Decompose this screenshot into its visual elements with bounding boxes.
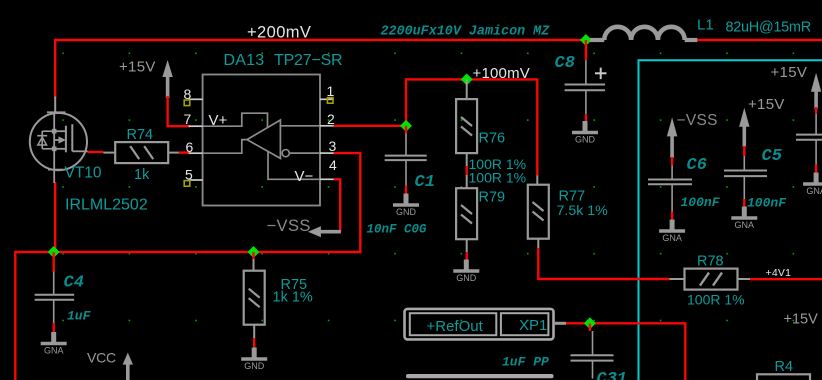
node +4V1 label — [766, 267, 792, 279]
capacitor C1 — [385, 126, 427, 194]
label 100R 1% (R78) — [687, 292, 745, 308]
no-connect pin 8 — [184, 100, 190, 106]
svg-text:+15V: +15V — [748, 96, 785, 113]
label 1k 1% (R75) — [273, 290, 313, 306]
label 100R 1% (R79) — [469, 170, 527, 186]
svg-text:R4: R4 — [775, 359, 794, 375]
svg-text:−VSS: −VSS — [677, 112, 718, 129]
label V+ — [209, 112, 228, 129]
svg-text:4: 4 — [329, 157, 337, 173]
svg-text:1k: 1k — [134, 167, 150, 183]
wire: pin3 down to bottom rail — [334, 153, 361, 253]
svg-text:100nF: 100nF — [681, 195, 721, 210]
svg-text:GNA: GNA — [806, 186, 822, 196]
resistor R74 — [103, 142, 179, 163]
label C8 — [555, 54, 575, 73]
capacitor (right edge) — [796, 107, 822, 173]
svg-text:10nF C0G: 10nF C0G — [367, 223, 428, 237]
ground GNA (right cap) — [803, 173, 822, 197]
svg-text:GNA: GNA — [44, 346, 64, 356]
svg-text:R74: R74 — [127, 127, 154, 143]
label 10nF C0G — [367, 223, 428, 237]
label L1 — [697, 17, 714, 34]
svg-text:+15V: +15V — [771, 64, 808, 81]
junction top rail — [580, 34, 592, 46]
label DA13 — [224, 52, 265, 69]
label 100nF (C6) — [681, 195, 721, 210]
resistor R78 — [670, 269, 751, 290]
wire: XP1 stub — [554, 322, 567, 325]
wire: gate to R74 — [88, 151, 104, 153]
svg-text:DA13: DA13 — [224, 52, 265, 69]
label R79 — [479, 190, 506, 206]
junction XP1 net — [584, 317, 596, 329]
junction bottom-R75 — [248, 246, 260, 258]
svg-text:100R 1%: 100R 1% — [687, 292, 745, 308]
pin 7 — [184, 111, 192, 127]
label 7.5k 1% (R77) — [557, 203, 609, 219]
label 2200uFx10V Jamicon MZ — [381, 25, 551, 40]
svg-text:+15V: +15V — [119, 59, 156, 76]
label R75 — [281, 277, 308, 293]
node +200mV label — [247, 24, 311, 42]
svg-text:R78: R78 — [697, 253, 724, 269]
svg-text:+RefOut: +RefOut — [427, 318, 484, 335]
label R76 — [479, 130, 506, 146]
ground GND (R75) — [241, 348, 267, 372]
svg-text:GND: GND — [396, 207, 417, 217]
label R74 — [127, 127, 154, 143]
svg-text:+200mV: +200mV — [247, 24, 311, 42]
wire: +15V to pin7 — [168, 96, 190, 126]
ground GNA (C5) — [731, 207, 757, 231]
label 82uH@15mR (L1) — [726, 20, 811, 36]
svg-text:IRLML2502: IRLML2502 — [65, 197, 148, 214]
label 1uF (C4) — [67, 308, 92, 323]
label C1 — [415, 173, 435, 192]
svg-text:C8: C8 — [555, 54, 575, 73]
svg-text:R79: R79 — [479, 190, 506, 206]
svg-text:+4V1: +4V1 — [766, 267, 792, 279]
power +15V (right cap) — [771, 64, 822, 109]
pin 5 — [185, 166, 193, 182]
svg-text:100nF: 100nF — [747, 196, 787, 211]
svg-text:GNA: GNA — [735, 220, 755, 230]
svg-text:1uF: 1uF — [67, 308, 92, 323]
pin 2 — [327, 111, 335, 127]
pin 6 — [186, 139, 194, 155]
junction C1 node — [400, 120, 412, 132]
wire: XP1 to right drop — [566, 323, 685, 380]
label +RefOut — [427, 318, 484, 335]
svg-text:+100mV: +100mV — [473, 65, 531, 82]
power +15V (op-amp supply) — [119, 59, 173, 99]
svg-text:V+: V+ — [209, 112, 228, 129]
svg-text:R76: R76 — [479, 130, 506, 146]
node +100mV label — [473, 65, 531, 82]
no-connect pin 1 — [327, 98, 333, 104]
power VCC — [87, 349, 133, 380]
svg-text:2200uFx10V Jamicon MZ: 2200uFx10V Jamicon MZ — [381, 25, 551, 40]
label TP27-SR — [274, 52, 342, 69]
svg-text:100R 1%: 100R 1% — [469, 170, 527, 186]
label IRLML2502 — [65, 197, 148, 214]
svg-text:GND: GND — [575, 135, 596, 145]
svg-text:7: 7 — [184, 111, 192, 127]
label C6 — [687, 156, 707, 175]
capacitor C8 — [565, 40, 607, 121]
svg-text:3: 3 — [329, 138, 337, 154]
svg-text:V−: V− — [295, 168, 314, 185]
label VT10 — [65, 165, 102, 182]
svg-text:+15V: +15V — [784, 311, 819, 327]
resistor R79 — [456, 188, 477, 259]
svg-text:82uH@15mR: 82uH@15mR — [726, 20, 811, 36]
capacitor C6 — [648, 157, 692, 220]
connector (bottom, clipped) — [406, 374, 554, 378]
svg-text:XP1: XP1 — [519, 317, 547, 334]
ground GND (C1) — [393, 194, 419, 218]
wire: pin4 to -VSS — [334, 179, 340, 231]
svg-text:L1: L1 — [697, 17, 714, 34]
wire: R74 to pin6 — [179, 151, 191, 153]
label R4 — [775, 359, 794, 375]
resistor R75 — [244, 252, 265, 348]
label XP1 — [519, 317, 547, 334]
label 100R 1% (R76) — [469, 156, 527, 172]
svg-text:−VSS: −VSS — [267, 217, 311, 235]
svg-text:1uF PP: 1uF PP — [502, 355, 549, 370]
power +15V (C5) — [739, 96, 785, 147]
wire: +200mV top rail — [55, 40, 586, 98]
label R78 — [697, 253, 724, 269]
svg-text:GND: GND — [244, 361, 265, 371]
wire: R77 to R78 — [538, 248, 669, 279]
svg-text:7.5k 1%: 7.5k 1% — [557, 203, 609, 219]
label C31 — [597, 370, 628, 380]
label 1k (R74 value) — [134, 167, 150, 183]
op-amp U=DA13 body — [189, 75, 334, 206]
wire: pin2 to C1 node — [334, 125, 407, 127]
svg-text:1: 1 — [327, 83, 335, 99]
ground GND (C8) — [572, 121, 598, 145]
wire: top rail right of L1 — [697, 39, 822, 41]
transistor VT10 IRLML2502 (MOSFET) — [30, 112, 88, 183]
capacitor C31 — [571, 323, 614, 378]
svg-text:C5: C5 — [762, 147, 782, 166]
pin 1 — [327, 83, 335, 99]
junction +100mV — [461, 73, 473, 85]
junction bottom-left — [48, 246, 60, 258]
wire: VT10 drain lead gray — [54, 97, 56, 115]
no-connect pin 5 — [184, 181, 190, 187]
label R77 — [559, 189, 586, 205]
resistor R4 (clipped) — [757, 374, 810, 380]
inductor L1 — [590, 27, 697, 40]
capacitor C4 — [35, 252, 75, 332]
svg-text:C1: C1 — [415, 173, 435, 192]
ground GND (R79) — [453, 260, 479, 284]
pin 3 — [329, 138, 337, 154]
label 100nF (C5) — [747, 196, 787, 211]
svg-text:6: 6 — [186, 139, 194, 155]
resistor R77 — [528, 176, 549, 249]
wire: R78 to +4V1 — [750, 278, 822, 280]
wire: bottom rail y=252 — [15, 252, 360, 380]
power -VSS (op-amp) — [267, 217, 341, 237]
svg-text:C6: C6 — [687, 156, 707, 175]
ground GNA (C6) — [659, 220, 685, 244]
svg-text:TP27−SR: TP27−SR — [274, 52, 342, 69]
capacitor C5 — [724, 146, 767, 207]
resistor R76 — [456, 79, 477, 188]
power -VSS (C6) — [667, 112, 718, 158]
svg-text:GND: GND — [456, 273, 477, 283]
connector XP1 body — [405, 309, 554, 340]
ground GNA (C4) — [41, 332, 67, 356]
wire: C1 node up to +100mV rail — [406, 79, 537, 175]
label C5 — [762, 147, 782, 166]
grid dots — [62, 53, 794, 322]
block boundary (cyan sheet) — [639, 60, 822, 380]
svg-text:1k 1%: 1k 1% — [273, 290, 313, 306]
svg-text:C4: C4 — [64, 274, 84, 293]
wire: VT10 source to bottom rail — [54, 182, 56, 252]
power +15V label (bottom right) — [784, 311, 819, 327]
label V- — [295, 168, 314, 185]
label C4 — [64, 274, 84, 293]
pin 8 — [184, 86, 192, 102]
svg-text:VT10: VT10 — [65, 165, 102, 182]
svg-text:C31: C31 — [597, 370, 628, 380]
svg-text:VCC: VCC — [87, 349, 116, 365]
label 1uF PP (C31) — [502, 355, 549, 370]
svg-text:GNA: GNA — [662, 233, 682, 243]
pin 4 — [329, 157, 337, 173]
